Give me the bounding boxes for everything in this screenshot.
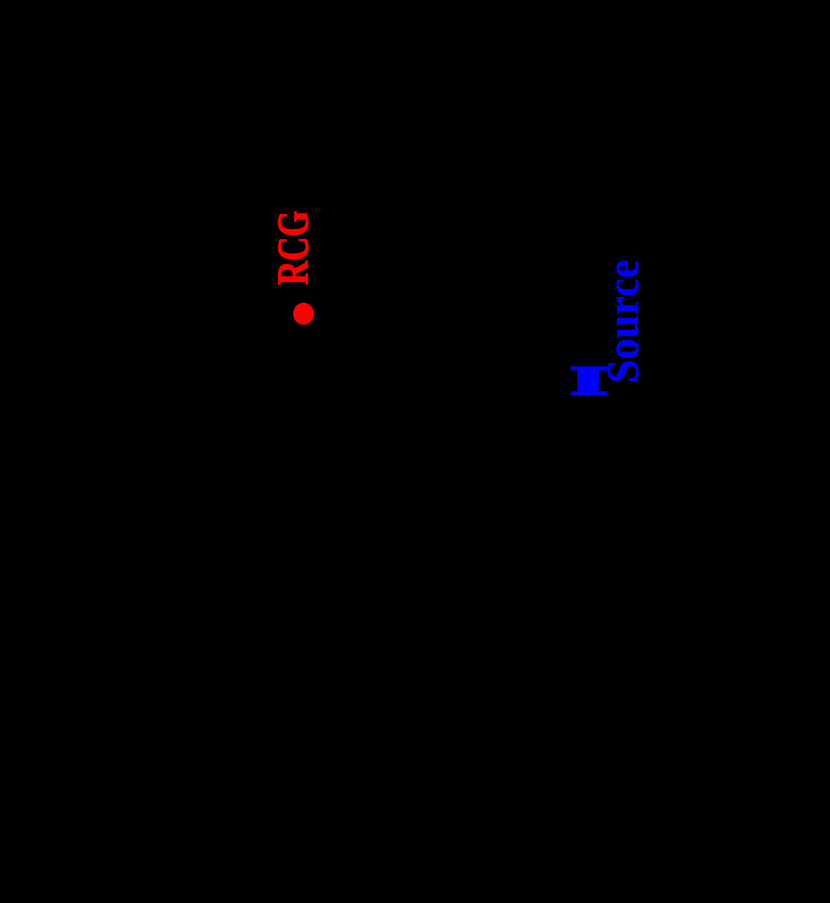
station point RCG (red dot) — [293, 303, 314, 325]
station label RCG — [269, 210, 317, 285]
label Source — [599, 260, 649, 383]
svg-text:RCG: RCG — [269, 210, 317, 285]
svg-text:Source: Source — [599, 260, 649, 383]
source marker (blue spool glyph) — [571, 366, 608, 395]
